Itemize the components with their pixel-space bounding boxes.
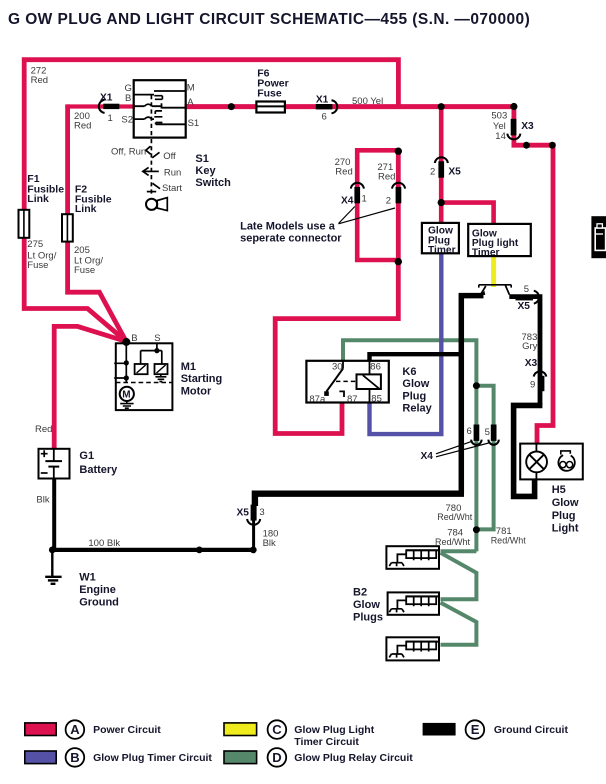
label 780 Red/Wht (437, 503, 473, 522)
svg-text:H5: H5 (552, 484, 566, 496)
wire 100 Blk ground bus (50, 548, 254, 552)
wire 500 Yel bus (185, 104, 514, 109)
svg-text:1: 1 (108, 113, 113, 124)
node ground X5-3 (250, 547, 257, 554)
svg-text:5: 5 (485, 427, 490, 438)
svg-text:C: C (272, 722, 282, 737)
svg-text:30: 30 (332, 361, 343, 372)
legend swatch D glow plug relay (224, 748, 413, 767)
starting motor M1 (114, 342, 172, 410)
label 271 Red (377, 162, 395, 182)
wire Red battery positive (54, 326, 126, 449)
svg-text:Glow: Glow (552, 497, 579, 509)
svg-text:1: 1 (362, 193, 367, 204)
wire to glow plug light timer (441, 203, 493, 225)
svg-text:Battery: Battery (79, 464, 118, 476)
node 503 Yel junction 2 (549, 142, 556, 149)
svg-text:X5: X5 (237, 507, 250, 518)
svg-text:2: 2 (386, 195, 391, 206)
svg-text:B: B (70, 750, 79, 765)
svg-text:B: B (131, 333, 137, 344)
legend swatch B glow plug timer (25, 748, 213, 767)
timer box glow plug light timer (468, 224, 531, 259)
glow plug B2 unit 3 (386, 637, 439, 660)
node starting motor B (122, 338, 130, 346)
legend swatch C glow plug light timer (224, 720, 375, 748)
pointer lines X4 lower (436, 442, 489, 457)
svg-text:Light: Light (552, 522, 579, 534)
wire ground circuit left lower (to X5-3) (255, 494, 464, 506)
label F1 Fusible Link (27, 173, 64, 205)
battery G1 (39, 449, 70, 479)
svg-text:100 Blk: 100 Blk (88, 538, 120, 549)
svg-text:Timer: Timer (472, 248, 500, 259)
svg-text:X4: X4 (421, 451, 434, 462)
label X5 pin 3 (237, 507, 265, 518)
page margin icon (591, 216, 606, 258)
svg-text:S2: S2 (121, 114, 133, 125)
glow plug light H5 (520, 444, 583, 480)
key switch S1 box (134, 80, 186, 137)
svg-text:Red/Wht: Red/Wht (437, 512, 473, 522)
svg-text:S: S (154, 333, 160, 344)
label B2 Glow Plugs (353, 587, 383, 624)
label X3 pin 9 (525, 358, 538, 390)
svg-text:9: 9 (530, 379, 535, 390)
svg-text:Ground: Ground (79, 596, 119, 608)
svg-text:Starting: Starting (181, 373, 223, 385)
label 205 Lt Org Fuse (74, 245, 103, 276)
label G1 Battery (79, 450, 118, 476)
wire ground circuit right upper (X5-5 to X3-9) (509, 297, 540, 406)
connector X4 pin 6 (471, 425, 481, 445)
svg-text:A: A (70, 722, 80, 737)
svg-text:K6: K6 (402, 366, 416, 378)
svg-text:W1: W1 (79, 572, 96, 584)
label 272 Red (31, 66, 48, 87)
legend swatch A power (25, 720, 161, 739)
label F6 Power Fuse (257, 68, 289, 100)
svg-text:Run: Run (164, 168, 181, 179)
svg-text:Red/Wht: Red/Wht (435, 537, 471, 547)
fuse F6 power fuse (256, 102, 285, 113)
wire 270 Red (357, 150, 398, 260)
node ground mid (196, 547, 203, 554)
svg-text:X3: X3 (525, 358, 538, 369)
svg-text:B2: B2 (353, 587, 367, 599)
svg-text:Glow: Glow (402, 378, 429, 390)
svg-text:14: 14 (495, 131, 506, 142)
label key switch terminals M A S1 (187, 83, 200, 129)
label Late Models note (240, 220, 342, 244)
svg-text:seperate connector: seperate connector (240, 233, 342, 245)
label 5 X5 transistor (518, 284, 531, 312)
svg-text:6: 6 (322, 112, 327, 123)
svg-text:500 Yel: 500 Yel (352, 96, 383, 107)
label starting motor B S (131, 333, 160, 344)
wire X5-3 to ground bus (252, 518, 255, 550)
label 275 Lt Org Fuse (27, 239, 56, 271)
svg-text:Red: Red (31, 75, 48, 86)
svg-text:Timer: Timer (428, 245, 456, 256)
svg-text:Plug: Plug (402, 390, 426, 402)
relay K6 (306, 361, 388, 403)
node ground battery (49, 547, 56, 554)
svg-text:X5: X5 (448, 166, 461, 177)
connector X4 pin 5 (488, 425, 498, 445)
label relay terminals (309, 361, 381, 405)
wire relay 86 to ground (370, 354, 461, 361)
svg-text:X5: X5 (518, 301, 531, 312)
svg-text:E: E (471, 722, 480, 737)
svg-text:Red: Red (35, 424, 52, 435)
svg-text:2: 2 (430, 166, 435, 177)
svg-text:6: 6 (467, 426, 472, 437)
connector X5 pin 3 (247, 505, 260, 525)
connector X4 pin 1 (351, 183, 364, 203)
wire 200 Red (67, 104, 135, 108)
node bus X5-2 branch (438, 103, 445, 110)
key switch S1 mechanism (143, 139, 168, 211)
connector X5 pin 2 (435, 157, 448, 177)
svg-text:S1: S1 (188, 118, 200, 129)
svg-text:Off, Run: Off, Run (111, 146, 146, 157)
connector X1 pin 1 (99, 100, 119, 113)
fuse F1 fusible link (19, 210, 30, 238)
svg-text:B: B (125, 93, 131, 104)
svg-text:85: 85 (371, 394, 382, 405)
label X1 pin 6 (316, 95, 329, 123)
svg-text:Switch: Switch (195, 177, 231, 189)
svg-text:X1: X1 (316, 95, 329, 106)
wire 503 Yel (514, 104, 553, 443)
label F2 Fusible Link (75, 183, 112, 215)
svg-text:Key: Key (195, 165, 216, 177)
svg-text:Late Models use a: Late Models use a (240, 220, 336, 232)
svg-text:3: 3 (259, 507, 264, 518)
label M1 Starting Motor (181, 361, 223, 398)
svg-text:D: D (272, 750, 281, 765)
node green X4 split (473, 382, 480, 389)
connector X1 pin 6 (316, 100, 337, 113)
label 180 Blk (263, 528, 279, 549)
label X1 pin 1 (100, 92, 113, 124)
label K6 Glow Plug Relay (402, 366, 432, 415)
svg-text:Ground Circuit: Ground Circuit (494, 724, 569, 736)
node green glow plug split (473, 526, 480, 533)
node bus A (228, 103, 235, 110)
wire 272 Red border loop (24, 60, 398, 342)
timer box glow plug timer (422, 223, 459, 256)
svg-text:Fuse: Fuse (257, 88, 282, 100)
node timers split (438, 199, 445, 206)
legend swatch E ground (423, 720, 569, 739)
svg-text:275: 275 (27, 239, 43, 250)
ground W1 symbol (45, 550, 61, 584)
label 2 X5 (430, 166, 461, 177)
svg-text:Fuse: Fuse (74, 265, 95, 276)
svg-text:Off: Off (163, 151, 176, 162)
transistor glow plug light driver (479, 285, 511, 295)
svg-text:Power Circuit: Power Circuit (93, 724, 161, 736)
wire ground circuit left upper (transistor to relay area) (461, 296, 483, 494)
label 781 Red/Wht (491, 526, 527, 545)
svg-text:87a: 87a (309, 394, 326, 405)
svg-text:Fuse: Fuse (27, 260, 48, 271)
svg-text:Start: Start (162, 183, 182, 194)
starting motor M1 internal nodes (124, 348, 160, 381)
node 503 Yel junction 1 (523, 142, 530, 149)
node 270/271 split (395, 148, 402, 155)
svg-text:Red: Red (74, 121, 91, 132)
svg-text:Link: Link (75, 203, 97, 215)
fuse F2 fusible link (62, 214, 73, 241)
node 271 loop bottom (395, 258, 402, 265)
wire ground circuit right lower (to H5 lamp) (514, 405, 543, 496)
label 270 Red (335, 157, 353, 178)
svg-text:Glow Plug Light: Glow Plug Light (294, 724, 374, 736)
wire 271 Red (275, 149, 398, 434)
label S1 Key Switch (195, 153, 231, 189)
label H5 Glow Plug Light (552, 484, 579, 534)
svg-text:X4: X4 (341, 196, 354, 207)
wire 205 Lt Org F2 branch (68, 104, 127, 341)
wire glow plug timer blue (370, 253, 442, 434)
svg-text:Blk: Blk (263, 538, 276, 549)
svg-text:Engine: Engine (79, 584, 116, 596)
svg-text:Gry: Gry (522, 341, 538, 352)
svg-text:X1: X1 (100, 92, 113, 103)
svg-text:S1: S1 (195, 153, 208, 165)
wire glow plug relay trunk green (343, 340, 476, 551)
pointer lines late models (339, 207, 396, 224)
label 200 Red (74, 111, 91, 132)
wire battery negative Blk (52, 478, 56, 550)
wire 781 green branch (474, 386, 494, 530)
svg-text:Glow: Glow (353, 599, 380, 611)
svg-text:Plugs: Plugs (353, 612, 383, 624)
svg-text:Relay: Relay (402, 403, 432, 415)
svg-text:Motor: Motor (181, 385, 212, 397)
label 784 Red/Wht (435, 528, 471, 547)
connector X3 pin 14 (507, 119, 520, 140)
label 783 Gry (522, 332, 538, 352)
label W1 Engine Ground (79, 572, 119, 609)
connector X3 pin 9 (534, 371, 547, 391)
svg-text:Red/Wht: Red/Wht (491, 536, 527, 546)
svg-text:G1: G1 (79, 450, 94, 462)
label 503 Yel 14 (491, 111, 507, 143)
label key switch terminals G B S2 (121, 83, 133, 125)
svg-text:M: M (187, 83, 195, 94)
wire 784 glow plug zigzag (441, 551, 477, 645)
svg-text:Link: Link (27, 193, 49, 205)
svg-text:X3: X3 (521, 121, 534, 132)
svg-text:Glow Plug Timer Circuit: Glow Plug Timer Circuit (93, 752, 212, 764)
svg-text:Timer Circuit: Timer Circuit (294, 736, 359, 748)
glow plug B2 unit 2 (388, 592, 439, 614)
svg-text:86: 86 (370, 361, 381, 372)
svg-text:Blk: Blk (36, 494, 49, 505)
svg-text:Glow Plug Relay Circuit: Glow Plug Relay Circuit (294, 752, 413, 764)
svg-text:87: 87 (347, 394, 358, 405)
connector X4 pin 2 (392, 183, 405, 203)
label X4 pins 6 5 (467, 426, 490, 438)
svg-text:M1: M1 (181, 361, 196, 373)
svg-text:G OW PLUG AND LIGHT CIRCUIT SC: G OW PLUG AND LIGHT CIRCUIT SCHEMATIC—45… (8, 11, 530, 28)
label X4 connectors upper (341, 193, 391, 206)
svg-text:5: 5 (524, 284, 529, 295)
node bus 503 branch (510, 103, 517, 110)
svg-text:A: A (187, 97, 194, 108)
svg-text:Red: Red (335, 167, 352, 178)
svg-text:Red: Red (378, 171, 395, 182)
wire glow plug light timer yellow (491, 256, 496, 287)
svg-text:Plug: Plug (552, 510, 576, 522)
glow plug B2 unit 1 (386, 546, 439, 569)
wire to glow plug timers (439, 107, 444, 224)
connector X5 pin 5 (516, 291, 540, 304)
svg-text:M: M (122, 390, 130, 401)
